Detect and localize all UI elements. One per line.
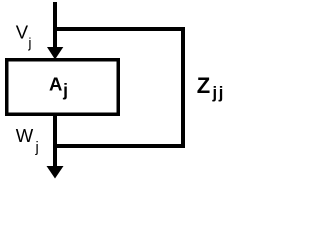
svg-text:j: j xyxy=(27,35,31,51)
svg-text:A: A xyxy=(49,74,62,95)
svg-text:Z: Z xyxy=(197,73,210,98)
block A_j xyxy=(7,60,119,115)
svg-text:j: j xyxy=(62,80,68,100)
svg-text:W: W xyxy=(16,125,34,146)
wire: input vertical segment xyxy=(53,2,57,49)
svg-text:j: j xyxy=(35,140,39,156)
svg-text:V: V xyxy=(16,22,29,43)
label Z_jj xyxy=(197,73,224,102)
svg-text:j: j xyxy=(218,84,224,102)
wire: feedback loop top/right/bottom xyxy=(53,29,183,146)
wire: arrowhead into box A_j xyxy=(47,47,63,60)
wire: output arrowhead xyxy=(47,166,64,179)
node V_j xyxy=(16,22,32,51)
svg-text:j: j xyxy=(212,84,218,102)
wire: output vertical segment xyxy=(53,114,57,167)
label A_j xyxy=(49,74,68,101)
node W_j xyxy=(16,125,39,156)
